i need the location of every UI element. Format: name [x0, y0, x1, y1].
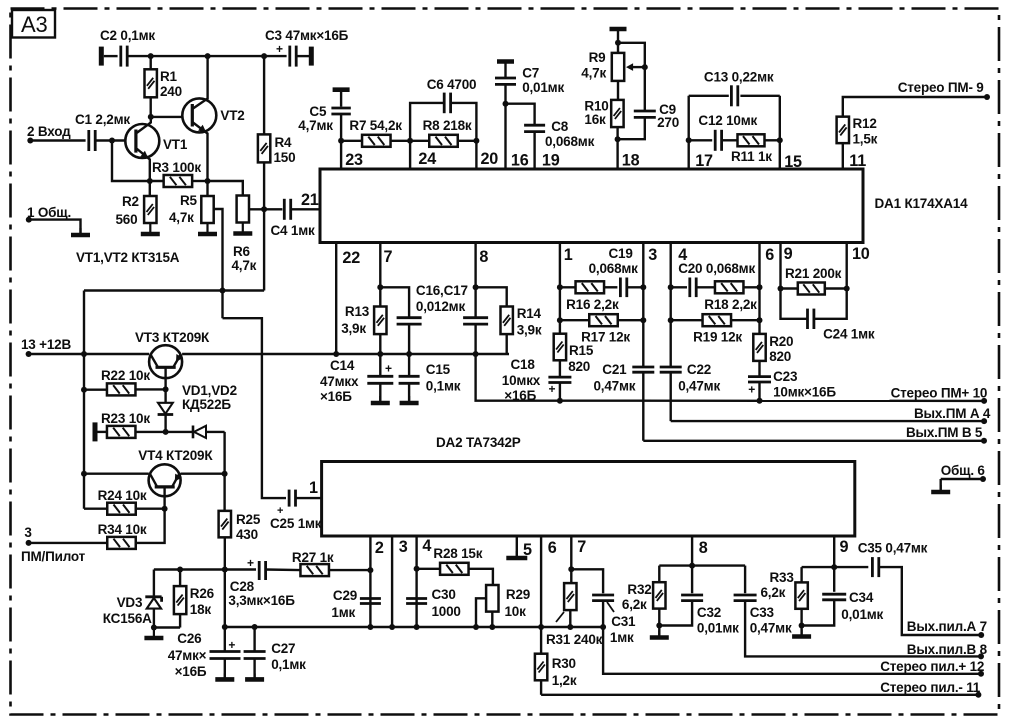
pin17 pin15 labels — [695, 152, 802, 171]
svg-text:Вых.пил.А 7: Вых.пил.А 7 — [907, 619, 987, 634]
capacitor C26 — [168, 570, 241, 680]
pin8 wire — [473, 243, 489, 318]
wire — [112, 141, 164, 182]
wire R1 bottom to VT2 base — [148, 114, 193, 120]
resistor R6 — [208, 181, 257, 273]
svg-text:R23 10к: R23 10к — [101, 411, 150, 426]
resistor R24 — [84, 488, 168, 515]
svg-text:C24 1мк: C24 1мк — [823, 327, 875, 342]
resistor R34 — [98, 509, 165, 549]
wire to pin2 — [329, 567, 373, 573]
wire row y569 — [154, 567, 256, 573]
svg-text:VT1: VT1 — [163, 137, 188, 152]
resistor R14 — [476, 287, 542, 354]
svg-text:Стерео ПМ- 9: Стерео ПМ- 9 — [898, 80, 984, 95]
svg-text:Вых.ПМ В 5: Вых.ПМ В 5 — [906, 425, 983, 440]
svg-text:R25: R25 — [236, 512, 261, 527]
ground R5 — [198, 223, 217, 234]
capacitor C28 — [228, 556, 295, 608]
svg-text:3,3мк×16Б: 3,3мк×16Б — [228, 593, 295, 608]
svg-text:C6 4700: C6 4700 — [427, 77, 477, 92]
svg-text:C12 10мк: C12 10мк — [698, 113, 757, 128]
terminal Стерео ПМ- 9 — [898, 80, 990, 100]
svg-text:А3: А3 — [21, 12, 48, 37]
svg-text:22: 22 — [342, 249, 360, 267]
label Стерео пил.+ 12 — [880, 659, 984, 674]
svg-text:C7: C7 — [522, 66, 539, 81]
svg-text:R34 10к: R34 10к — [98, 522, 147, 537]
pin6 wire — [760, 243, 775, 335]
svg-text:430: 430 — [236, 527, 258, 542]
svg-text:C8: C8 — [551, 119, 569, 134]
pin9 wire — [778, 243, 793, 292]
svg-text:VD3: VD3 — [117, 595, 143, 610]
resistor R33 — [761, 567, 808, 635]
svg-text:R5: R5 — [180, 193, 198, 208]
wire bottom rail — [222, 624, 603, 630]
capacitor C16 — [380, 283, 467, 357]
svg-text:R19 12к: R19 12к — [693, 330, 742, 345]
node pin23 — [338, 138, 363, 169]
wire jog to C25 — [223, 318, 287, 498]
svg-text:VD1,VD2: VD1,VD2 — [182, 383, 237, 398]
capacitor C35 — [858, 541, 928, 578]
zener VD3 — [103, 570, 162, 631]
svg-text:C2 0,1мк: C2 0,1мк — [100, 28, 155, 43]
capacitor C18 — [502, 357, 572, 404]
transistor VT1 — [125, 117, 188, 197]
resistor R23 — [95, 411, 169, 441]
svg-text:0,47мк: 0,47мк — [750, 621, 792, 636]
ground Общ. — [931, 485, 950, 492]
resistor R27 — [292, 550, 334, 576]
svg-text:КД522Б: КД522Б — [182, 397, 231, 412]
wire VD2 to R25 — [222, 432, 228, 511]
svg-text:C25 1мк: C25 1мк — [270, 516, 322, 531]
wire — [95, 138, 136, 144]
capacitor C24 — [781, 289, 875, 342]
wire — [30, 139, 85, 141]
IC DA2 TA7342P — [322, 435, 855, 536]
ground C14 — [371, 396, 390, 403]
svg-text:R14: R14 — [517, 306, 542, 321]
wire — [391, 140, 411, 142]
svg-text:C20 0,068мк: C20 0,068мк — [678, 261, 755, 276]
svg-text:150: 150 — [274, 150, 296, 165]
label Вых.пил.А 7 — [907, 619, 987, 634]
svg-text:VT4 КТ209К: VT4 КТ209К — [138, 448, 213, 463]
svg-text:C27: C27 — [271, 641, 295, 656]
svg-text:7: 7 — [577, 538, 586, 556]
pin9 wire DA2 — [831, 536, 848, 592]
svg-text:C32: C32 — [697, 605, 721, 620]
capacitor C1 — [75, 112, 130, 151]
svg-text:+: + — [748, 383, 755, 397]
label Стерео пил.- 11 — [880, 680, 981, 695]
diode VD1 — [158, 383, 237, 432]
svg-text:16: 16 — [511, 152, 529, 170]
resistor R4 — [258, 56, 296, 290]
svg-text:0,1мк: 0,1мк — [426, 379, 461, 394]
svg-text:C5: C5 — [309, 104, 327, 119]
svg-text:0,1мк: 0,1мк — [271, 657, 306, 672]
resistor R16 — [560, 281, 619, 312]
capacitor C25 — [270, 490, 322, 531]
capacitor C27 — [244, 627, 307, 672]
capacitor C2 — [100, 28, 155, 67]
ground R33 — [792, 630, 811, 637]
pin5 ground — [517, 536, 532, 559]
svg-text:R21 200к: R21 200к — [785, 266, 842, 281]
wire Вых.ПМ В — [643, 438, 987, 444]
svg-text:20: 20 — [481, 150, 499, 168]
svg-text:R20: R20 — [769, 334, 793, 349]
label Вых.пил.В 8 — [907, 642, 988, 657]
svg-text:1мк: 1мк — [610, 630, 634, 645]
svg-text:R22 10к: R22 10к — [101, 368, 150, 383]
svg-text:R18 2,2к: R18 2,2к — [704, 297, 757, 312]
svg-text:270: 270 — [657, 115, 679, 130]
pin7 wire — [377, 243, 392, 307]
svg-text:47мкх: 47мкх — [320, 374, 359, 389]
svg-text:2: 2 — [375, 539, 384, 557]
capacitor C8 — [506, 104, 595, 169]
svg-text:3,9к: 3,9к — [341, 321, 366, 336]
resistor R26 — [174, 570, 215, 628]
label Стерео ПМ+ 10 — [891, 386, 988, 401]
svg-text:×16Б: ×16Б — [504, 388, 536, 403]
capacitor C4 — [271, 199, 316, 238]
resistor R22 — [84, 368, 169, 395]
diode VD2 — [166, 426, 225, 439]
svg-text:R4: R4 — [275, 135, 293, 150]
svg-text:8: 8 — [699, 539, 708, 557]
wire — [802, 566, 869, 568]
capacitor C22 — [660, 362, 721, 421]
svg-text:4: 4 — [422, 537, 431, 555]
pin8 wire — [689, 536, 708, 593]
svg-text:1,2к: 1,2к — [552, 673, 577, 688]
svg-text:820: 820 — [769, 349, 791, 364]
svg-text:+: + — [228, 638, 235, 652]
svg-text:R3 100к: R3 100к — [152, 160, 201, 175]
svg-text:3: 3 — [399, 538, 408, 556]
svg-text:6: 6 — [765, 246, 774, 264]
wire Вых.ПМ А — [671, 418, 987, 424]
svg-text:+: + — [276, 42, 283, 56]
svg-text:560: 560 — [116, 212, 138, 227]
svg-text:10: 10 — [852, 245, 870, 263]
svg-text:18к: 18к — [190, 602, 212, 617]
svg-text:23: 23 — [345, 151, 363, 169]
svg-text:47мк×: 47мк× — [168, 648, 207, 663]
resistor R12 — [837, 97, 987, 169]
resistor R1 — [145, 56, 182, 117]
svg-text:4,7к: 4,7к — [232, 258, 257, 273]
svg-text:+: + — [247, 556, 254, 570]
svg-text:R11 1к: R11 1к — [731, 149, 772, 164]
resistor R20 — [753, 334, 793, 377]
svg-text:×16Б: ×16Б — [175, 664, 207, 679]
terminal 2 Вход — [27, 124, 71, 144]
svg-text:R26: R26 — [190, 586, 215, 601]
capacitor C32 — [659, 595, 739, 636]
resistor R2 — [116, 194, 157, 227]
svg-text:R27 1к: R27 1к — [292, 550, 334, 565]
svg-text:Стерео ПМ+ 10: Стерео ПМ+ 10 — [891, 386, 988, 401]
svg-text:R24 10к: R24 10к — [98, 488, 147, 503]
pin22 wire — [333, 243, 360, 358]
capacitor C14 — [320, 354, 393, 404]
svg-text:6: 6 — [548, 539, 557, 557]
svg-text:240: 240 — [160, 84, 182, 99]
svg-text:18: 18 — [622, 152, 640, 170]
svg-text:×16Б: ×16Б — [320, 389, 352, 404]
capacitor C6 — [410, 77, 476, 141]
wire Стерео пил+ — [600, 601, 984, 677]
wire R6 tap to C4 — [249, 206, 282, 212]
resistor R9 (trimmer) — [581, 29, 648, 81]
node VT2 emitter junction — [205, 178, 211, 184]
svg-text:10мкх: 10мкх — [502, 373, 541, 388]
pin11 label — [849, 152, 866, 170]
capacitor C3 — [265, 28, 349, 67]
svg-text:9: 9 — [840, 538, 849, 556]
svg-text:C23: C23 — [773, 369, 798, 384]
svg-text:0,01мк: 0,01мк — [522, 80, 564, 95]
svg-text:15: 15 — [784, 153, 802, 171]
resistor R8 — [423, 118, 472, 147]
ground R6 — [233, 223, 252, 234]
svg-text:R28 15к: R28 15к — [433, 546, 482, 561]
svg-text:R6: R6 — [233, 244, 251, 259]
svg-text:24: 24 — [418, 150, 436, 168]
svg-text:1000: 1000 — [432, 604, 461, 619]
svg-text:VT2: VT2 — [220, 108, 244, 123]
svg-text:0,068мк: 0,068мк — [589, 261, 639, 276]
capacitor C19 — [589, 246, 644, 297]
svg-text:C13 0,22мк: C13 0,22мк — [704, 70, 774, 85]
wire — [147, 178, 208, 184]
svg-text:C3 47мк×16Б: C3 47мк×16Б — [265, 28, 349, 43]
capacitor C7 — [495, 62, 564, 170]
wire — [341, 140, 362, 142]
svg-text:8: 8 — [479, 248, 488, 266]
svg-text:4,7к: 4,7к — [169, 210, 194, 225]
svg-text:C18: C18 — [511, 357, 536, 372]
svg-text:17: 17 — [695, 152, 713, 170]
capacitor C21 — [594, 362, 655, 441]
svg-text:1: 1 — [309, 479, 318, 497]
transistor VT2 — [182, 56, 244, 181]
svg-text:4,7к: 4,7к — [581, 66, 606, 81]
capacitor C30 — [406, 587, 461, 619]
svg-text:0,01мк: 0,01мк — [841, 607, 883, 622]
IC DA1 К174ХА14 — [320, 169, 968, 243]
wire Стерео пил- — [541, 692, 981, 698]
svg-text:R31 240к: R31 240к — [546, 632, 603, 647]
node pin20 — [473, 138, 498, 169]
svg-text:10к: 10к — [505, 604, 527, 619]
svg-text:21: 21 — [301, 191, 319, 209]
svg-text:820: 820 — [568, 359, 590, 374]
capacitor C9 — [615, 67, 679, 142]
svg-text:0,012мк: 0,012мк — [416, 299, 466, 314]
svg-text:C26: C26 — [177, 631, 202, 646]
resistor R31 — [546, 583, 603, 647]
svg-text:C29: C29 — [333, 588, 357, 603]
wire — [266, 568, 300, 571]
svg-text:C22: C22 — [687, 362, 711, 377]
svg-text:11: 11 — [849, 152, 866, 170]
svg-text:C30: C30 — [432, 587, 456, 602]
ground C26 — [215, 659, 234, 680]
wire Стерео ПМ+ — [560, 398, 987, 404]
svg-text:9: 9 — [784, 245, 793, 263]
svg-text:+: + — [385, 362, 392, 376]
svg-text:C16,C17: C16,C17 — [416, 283, 468, 298]
svg-text:Вых.пил.В 8: Вых.пил.В 8 — [907, 642, 988, 657]
svg-text:R17 12к: R17 12к — [581, 330, 630, 345]
A3 title box — [12, 10, 55, 38]
svg-text:3: 3 — [24, 525, 32, 540]
wire pin8 down — [476, 354, 560, 401]
svg-text:Стерео пил.- 11: Стерео пил.- 11 — [880, 680, 981, 695]
svg-text:C1 2,2мк: C1 2,2мк — [75, 112, 130, 127]
svg-text:R7 54,2к: R7 54,2к — [349, 118, 402, 133]
wire — [659, 564, 745, 566]
ground C15 — [400, 396, 419, 403]
resistor R15 — [554, 334, 594, 377]
pin1 wire — [557, 243, 573, 334]
ground pin5 — [506, 551, 527, 558]
svg-text:C28: C28 — [230, 579, 255, 594]
svg-text:C14: C14 — [330, 358, 355, 373]
capacitor C20 — [671, 261, 756, 297]
resistor R18 — [704, 281, 762, 312]
svg-text:C21: C21 — [602, 362, 627, 377]
capacitor C17 — [463, 318, 488, 357]
resistor R13 — [341, 304, 386, 357]
pin10 wire — [844, 243, 870, 292]
resistor R25 — [219, 511, 261, 570]
node pin24 — [407, 138, 436, 169]
ground C27 — [245, 659, 264, 680]
svg-text:19: 19 — [542, 152, 560, 170]
resistor R11 — [731, 134, 783, 164]
capacitor C5 — [298, 90, 351, 141]
resistor R10 — [584, 81, 623, 169]
resistor R28 — [417, 546, 483, 575]
wire R5 tap — [214, 209, 223, 318]
wire — [410, 140, 429, 142]
svg-text:10мк×16Б: 10мк×16Б — [773, 385, 836, 400]
svg-text:R32: R32 — [627, 582, 651, 597]
resistor R21 — [781, 266, 847, 295]
resistor R5 — [169, 181, 214, 225]
svg-text:0,068мк: 0,068мк — [545, 134, 595, 149]
resistor R19 — [668, 314, 763, 344]
svg-text:R13: R13 — [345, 304, 370, 319]
label Вых.ПМ А 4 — [914, 406, 991, 421]
wire R26 to VD3 — [154, 626, 180, 628]
terminal 13 +12В — [21, 337, 71, 357]
capacitor C34 — [802, 590, 884, 626]
pin3 wire — [389, 536, 408, 630]
transistor VT4 — [138, 448, 213, 509]
svg-text:R16 2,2к: R16 2,2к — [566, 297, 619, 312]
svg-text:R33: R33 — [770, 570, 795, 585]
svg-text:13 +12В: 13 +12В — [21, 337, 71, 352]
wire rail right of VT3 — [182, 353, 509, 355]
svg-text:VT3 КТ209К: VT3 КТ209К — [135, 330, 210, 345]
capacitor C15 — [399, 354, 461, 402]
wire VT4 rails — [84, 473, 225, 475]
pin4 wire — [668, 243, 688, 368]
svg-text:DA1 К174ХА14: DA1 К174ХА14 — [875, 196, 969, 211]
transistor VT3 — [135, 330, 210, 389]
pin3 wire — [640, 243, 657, 368]
capacitor C13 bridge — [689, 70, 780, 170]
svg-text:R9: R9 — [589, 50, 606, 65]
svg-text:R12: R12 — [853, 116, 877, 131]
pin4 wire — [414, 536, 432, 630]
capacitor C29 — [331, 588, 381, 620]
resistor R17 — [560, 314, 646, 344]
wire +12V — [29, 351, 150, 357]
ground 1 Общ. — [71, 228, 90, 235]
svg-text:1 Общ.: 1 Общ. — [27, 205, 71, 220]
svg-text:КС156А: КС156А — [103, 611, 152, 626]
capacitor C12 — [686, 113, 758, 151]
wire left vertical bus — [81, 291, 87, 509]
svg-text:0,47мк: 0,47мк — [678, 379, 720, 394]
svg-text:C33: C33 — [750, 605, 775, 620]
svg-text:C31: C31 — [611, 614, 636, 629]
wire Вых.пил.А — [879, 567, 984, 638]
capacitor C23 — [748, 369, 836, 404]
wire — [458, 140, 477, 142]
svg-text:3: 3 — [648, 246, 657, 264]
wire — [29, 542, 108, 544]
svg-text:C19: C19 — [609, 246, 633, 261]
resistor R30 — [535, 654, 577, 695]
svg-text:Общ. 6: Общ. 6 — [941, 463, 986, 478]
pin6 wire — [538, 536, 557, 654]
wire — [29, 220, 81, 233]
terminal Общ. 6 — [941, 463, 986, 490]
svg-text:R15: R15 — [569, 343, 594, 358]
label Вых.ПМ В 5 — [906, 425, 983, 440]
pin19 label — [542, 152, 560, 170]
svg-text:ПМ/Пилот: ПМ/Пилот — [21, 549, 86, 564]
svg-text:4,7мк: 4,7мк — [298, 118, 333, 133]
svg-text:2 Вход: 2 Вход — [27, 124, 71, 139]
capacitor C33 — [734, 566, 792, 636]
svg-text:1,5к: 1,5к — [853, 132, 878, 147]
resistor R7 — [349, 118, 402, 147]
svg-text:R8 218к: R8 218к — [423, 118, 472, 133]
svg-text:6,2к: 6,2к — [622, 597, 647, 612]
wire Вых.пил.В — [745, 601, 984, 660]
svg-text:R29: R29 — [506, 587, 530, 602]
resistor R3 — [152, 160, 201, 187]
svg-text:7: 7 — [384, 248, 393, 266]
ground VD3 — [144, 629, 163, 638]
svg-text:DA2 TA7342P: DA2 TA7342P — [436, 435, 521, 450]
resistor R32 — [622, 566, 666, 637]
svg-text:3,9к: 3,9к — [517, 323, 542, 338]
